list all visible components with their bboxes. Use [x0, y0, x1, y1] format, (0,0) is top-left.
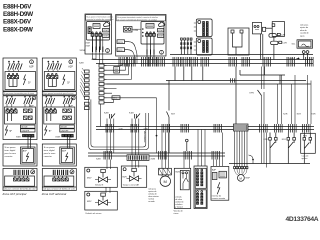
riser drop to tank — [184, 160, 190, 169]
svg-text:Si ya posee termostato para la: Si ya posee termostato para la zona — [4, 92, 35, 95]
svg-text:K2M: K2M — [134, 30, 139, 32]
svg-text:K1R: K1R — [297, 114, 302, 116]
main bus line 1 — [170, 54, 313, 56]
connector joint L9 — [289, 124, 297, 133]
terminal block X1A — [194, 19, 212, 37]
connector joint 6 — [182, 57, 190, 67]
fuse F6 — [24, 96, 29, 107]
row2 controller box — [3, 96, 37, 140]
svg-text:X5M: X5M — [103, 36, 108, 38]
svg-text:M: M — [239, 176, 242, 180]
cloud icon — [104, 22, 110, 26]
svg-text:S1L: S1L — [292, 44, 297, 46]
connector joint F4 — [184, 151, 192, 160]
main bus line 2 — [93, 59, 314, 61]
wire S1T — [125, 42, 138, 64]
pressure switch KPS — [250, 67, 265, 125]
relay K2M coil — [124, 27, 133, 33]
fuse F7 — [29, 96, 34, 107]
svg-text:X2M: X2M — [86, 43, 90, 45]
svg-text:ON/OFF: ON/OFF — [22, 130, 30, 132]
fuse F5 — [11, 96, 16, 107]
connector joint L10 — [303, 124, 311, 133]
noise filter Z1F — [228, 28, 249, 55]
svg-text:obra de: obra de — [300, 30, 308, 32]
interface module A11P — [141, 22, 164, 45]
svg-text:caudal de: caudal de — [300, 33, 310, 35]
contactor K2M — [104, 113, 115, 119]
lightning symbol row2 — [5, 126, 7, 136]
connector strip right-facing — [99, 64, 107, 104]
connector joint 11 — [263, 57, 271, 67]
svg-text:5°: 5° — [28, 81, 32, 85]
lightning — [217, 182, 220, 194]
svg-text:alimentacion: alimentacion — [143, 131, 146, 142]
label KPS arrow — [290, 58, 300, 61]
circled icon — [31, 170, 35, 174]
hub feed wires — [107, 66, 170, 103]
UAT zone 2 controller stack — [42, 58, 76, 191]
svg-text:solo para: solo para — [300, 25, 309, 27]
wire 2 — [184, 38, 186, 55]
tank valve box M2S — [174, 168, 190, 208]
svg-text:A2P: A2P — [29, 65, 34, 68]
thermistor switch S1S — [112, 96, 120, 100]
receiver module A5P — [21, 147, 36, 164]
svg-text:S1S: S1S — [113, 98, 118, 100]
svg-text:K5R: K5R — [312, 114, 316, 116]
label X2M — [103, 29, 110, 32]
pin pair 4 — [27, 170, 29, 175]
svg-text:E88H-D9W: E88H-D9W — [3, 11, 34, 18]
terminal strips box — [194, 166, 207, 209]
option box T1 (interface usuario) — [85, 14, 114, 54]
svg-text:usuario remoto: usuario remoto — [212, 197, 226, 200]
terminal row left — [6, 108, 17, 121]
pump M1P wires — [234, 131, 251, 181]
riser wires — [122, 64, 132, 80]
svg-text:X5TB: X5TB — [118, 42, 124, 44]
timer display — [146, 24, 154, 29]
connector joint 10 — [242, 57, 250, 67]
svg-text:X5M: X5M — [16, 137, 21, 139]
connector joint 4b — [157, 57, 165, 67]
connector joint L8 — [275, 124, 283, 133]
wire 4 — [190, 38, 192, 55]
wire 1 — [180, 38, 182, 55]
svg-text:5°: 5° — [10, 129, 13, 133]
motorized valve M2V zone 1 — [85, 167, 118, 187]
connector ticks on line — [231, 78, 235, 82]
svg-text:agua: agua — [300, 35, 305, 37]
lightning symbol row3 — [26, 153, 28, 162]
terminal row — [91, 32, 102, 36]
wires from flow switch — [304, 53, 308, 63]
connector joint 12 — [287, 57, 295, 67]
label X2M — [158, 29, 164, 32]
riser K2M coil wires — [107, 119, 114, 127]
connector joint 7 — [190, 57, 198, 67]
capacitor C2R — [269, 33, 286, 37]
connector strip left-facing X2M — [85, 70, 90, 110]
circled D — [106, 49, 110, 53]
svg-text:M1P: M1P — [246, 178, 251, 180]
cable bundle to outdoor — [180, 38, 192, 55]
wire S1S drop — [107, 99, 114, 102]
pin pair 3 — [22, 170, 24, 175]
svg-text:Zona UAT adicional: Zona UAT adicional — [41, 192, 67, 196]
svg-text:X5M: X5M — [158, 36, 163, 38]
relay feed K1R — [292, 75, 302, 124]
option box T2 (termostato central) — [116, 15, 166, 64]
svg-text:A1P: A1P — [92, 58, 97, 61]
svg-text:conectar: conectar — [5, 155, 13, 158]
svg-text:conectar la interfaz de usuari: conectar la interfaz de usuario asi — [86, 18, 113, 21]
svg-text:4D133764A: 4D133764A — [286, 216, 319, 223]
svg-text:X2M: X2M — [79, 63, 84, 65]
svg-text:X5TA: X5TA — [80, 49, 86, 52]
PCB box A2P main — [272, 22, 284, 37]
mid distribution line lower — [107, 83, 311, 85]
svg-text:de usuario suministrada direct: de usuario suministrada directamente a l… — [117, 18, 156, 21]
riser K2M to field bus — [107, 130, 114, 154]
svg-text:ajuste de: ajuste de — [300, 26, 309, 29]
model list text — [3, 3, 34, 33]
svg-text:X2M: X2M — [96, 159, 101, 161]
label X5TF — [117, 48, 125, 52]
wire pair to row3 — [27, 137, 29, 148]
svg-text:K1M: K1M — [129, 113, 134, 115]
connector joint L5 — [214, 124, 222, 133]
cloud icon — [159, 22, 165, 26]
connector joint F5 — [212, 151, 220, 160]
terminal module row4 — [5, 176, 35, 186]
inline strip on bus — [234, 124, 249, 131]
relay feed K5R — [308, 75, 316, 124]
svg-text:K5R: K5R — [303, 136, 308, 138]
reactor L1R box — [253, 22, 263, 59]
bottom pump M1C — [159, 168, 172, 186]
svg-text:C1R: C1R — [282, 43, 287, 45]
svg-text:Valvula de cierre: Valvula de cierre — [85, 213, 102, 215]
timer display — [93, 24, 100, 29]
svg-text:A5P: A5P — [23, 150, 28, 153]
svg-text:X2M: X2M — [158, 30, 163, 32]
fan wires from strip — [80, 68, 85, 98]
connector joint 9 — [229, 57, 237, 67]
capacitor C1R — [271, 41, 287, 44]
T1 drop wires with X5TA connectors — [80, 36, 103, 63]
svg-text:KPS: KPS — [250, 93, 255, 95]
svg-text:X2M: X2M — [151, 159, 156, 161]
field wiring bus line 1 — [88, 152, 225, 154]
svg-text:C2R: C2R — [281, 35, 286, 37]
mid distribution line upper — [166, 80, 306, 82]
terminal row right — [24, 109, 33, 120]
pin pair 1 — [14, 170, 16, 175]
svg-text:y tanque: y tanque — [175, 206, 184, 209]
connector joint 5 — [173, 57, 181, 67]
main bus line 3 — [96, 63, 313, 65]
contact K1R — [282, 133, 296, 164]
riser K1M to strip — [132, 130, 139, 156]
svg-text:M2V: M2V — [87, 178, 92, 180]
lightning symbol — [23, 75, 25, 86]
earth circle on wire — [186, 139, 189, 142]
sensor strip — [88, 27, 91, 34]
svg-text:MODE: MODE — [22, 127, 29, 129]
field wiring bus line 2 — [88, 155, 225, 157]
connector X.. pair — [302, 51, 309, 54]
wires into shutoff valve — [106, 187, 110, 193]
svg-text:solo para conexion de bomba de: solo para conexion de bomba de calor — [4, 188, 36, 191]
contactor K1M — [129, 113, 140, 119]
junction dot — [156, 135, 158, 137]
wires into valve zone1 — [107, 160, 110, 170]
terminal row X — [7, 74, 18, 87]
UAT zone 1 controller stack — [3, 58, 37, 191]
svg-text:X5M: X5M — [86, 46, 90, 48]
riser K1M coil wires — [132, 119, 139, 127]
mode buttons — [21, 125, 36, 128]
circled D — [160, 50, 164, 54]
svg-text:K2M: K2M — [104, 113, 109, 115]
connector joint 8 — [201, 57, 209, 67]
svg-text:X2M: X2M — [119, 128, 123, 130]
svg-text:A4P: A4P — [212, 169, 217, 172]
pump M1P motor — [238, 175, 245, 182]
caption bar row1 — [3, 92, 37, 95]
fuse F2 — [13, 61, 18, 72]
mid distribution line right — [240, 74, 285, 76]
riser drop to terminal box — [198, 130, 205, 167]
connector joint L1 — [106, 124, 114, 133]
svg-text:cerrada: cerrada — [148, 200, 155, 203]
bottom-right supply line — [229, 163, 310, 165]
svg-text:X2M: X2M — [103, 30, 108, 32]
row3 option box — [3, 144, 37, 166]
svg-text:term. digital: term. digital — [5, 149, 16, 152]
caption valve — [174, 211, 184, 216]
sensor dots — [142, 28, 144, 37]
motorized valve M2V zone 2 — [121, 166, 146, 187]
connector joint L2 — [131, 124, 139, 133]
svg-text:M2V: M2V — [123, 177, 128, 179]
terminal strip X4M — [127, 155, 149, 161]
low voltage bus line 1 — [96, 126, 314, 128]
shutoff valve box — [85, 191, 118, 210]
wires down T2 — [147, 36, 154, 63]
svg-text:K1R: K1R — [282, 139, 287, 141]
KPS pair to supply line — [262, 133, 267, 168]
label X5M — [103, 34, 110, 37]
riser drop to pump — [162, 133, 169, 169]
low voltage bus line 2 — [96, 129, 314, 131]
interface module A10P — [87, 22, 110, 41]
label X5TB — [117, 40, 125, 44]
svg-text:Si no posee: Si no posee — [5, 147, 17, 149]
svg-text:Tanque o zona UAT: Tanque o zona UAT — [123, 183, 140, 186]
note text block (field supply) — [300, 25, 310, 38]
fuse F1 — [8, 61, 13, 72]
thermostat box A2P (row 1) — [3, 58, 37, 91]
riser hub to bus — [99, 104, 101, 127]
inner module row2 — [5, 107, 36, 124]
thermostat inner module — [5, 72, 36, 90]
junction hook — [249, 155, 254, 164]
svg-text:E88X-D6V: E88X-D6V — [3, 19, 32, 26]
row4 terminal box — [3, 169, 37, 191]
svg-text:M2S: M2S — [176, 172, 181, 174]
flow switch S1L — [292, 40, 313, 48]
contact K2R — [264, 133, 278, 164]
connector X66A — [263, 27, 273, 31]
note text pump option — [148, 188, 159, 204]
connector joint F3 — [159, 151, 167, 160]
svg-text:cierre: cierre — [174, 213, 180, 215]
fuse F3 — [17, 61, 22, 72]
riser drop to A4P — [214, 133, 223, 167]
connector joint L7 — [260, 124, 268, 133]
svg-text:E88H-D6V: E88H-D6V — [3, 3, 32, 10]
svg-text:M: M — [164, 179, 167, 184]
circled 1 — [30, 60, 34, 64]
connector joint L4 — [181, 124, 189, 133]
fuse F4 — [6, 96, 11, 107]
connector joint F1 — [104, 151, 112, 160]
svg-text:para la zona: para la zona — [5, 152, 17, 155]
connector joint L3 — [162, 124, 170, 133]
option box contact K5R — [301, 133, 316, 164]
drop wires bus to mid — [175, 67, 280, 125]
wires down T1 — [93, 36, 101, 50]
connector joint 3 — [142, 57, 150, 67]
svg-text:S6T: S6T — [171, 114, 176, 116]
pin pair 2 — [18, 170, 20, 175]
left routing loop wires — [89, 99, 149, 149]
connector joint 4 — [149, 57, 157, 67]
remote interface A4P — [211, 167, 229, 201]
svg-text:K2R: K2R — [264, 139, 269, 141]
terminal row — [146, 32, 156, 36]
safety thermostat S6T on riser — [167, 81, 176, 154]
hydro unit control board A1P — [79, 58, 169, 109]
connector joint 2 — [128, 57, 136, 67]
wire 3 — [187, 38, 189, 55]
circled 1 — [32, 96, 36, 100]
sensor plug PU1 — [114, 67, 120, 74]
caption bar — [3, 186, 37, 188]
hub x156 feed — [156, 98, 158, 153]
svg-text:opcion: opcion — [302, 158, 308, 160]
wires into valve zone2 — [132, 161, 139, 168]
connector joint 1 — [119, 57, 127, 67]
svg-text:M2V: M2V — [87, 201, 92, 203]
terminal block X2A — [194, 38, 212, 55]
svg-text:X5TF: X5TF — [118, 50, 124, 52]
svg-text:Zona UAT principal: Zona UAT principal — [2, 192, 27, 196]
svg-text:Valvula M: Valvula M — [95, 185, 104, 187]
connector joint 13 — [306, 57, 314, 67]
wire pump feed — [273, 36, 275, 59]
svg-text:E88X-D9W: E88X-D9W — [3, 26, 34, 33]
relay feed K2R — [278, 75, 288, 124]
svg-text:K2R: K2R — [283, 114, 288, 116]
label X5M — [158, 34, 164, 37]
